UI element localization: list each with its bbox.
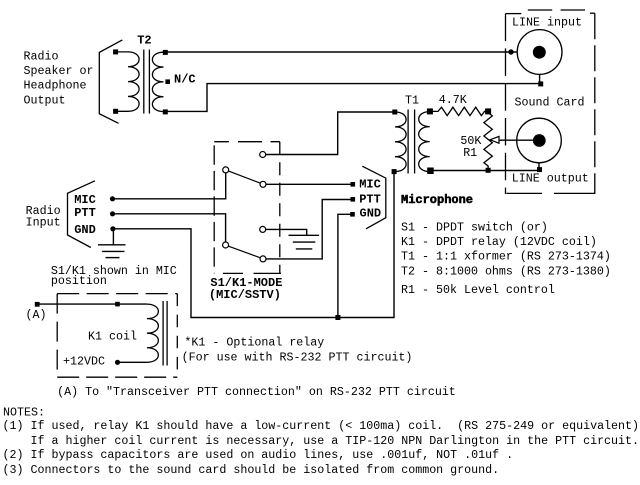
svg-text:Speaker or: Speaker or: [24, 64, 94, 78]
wire (A) to K1 coil: [37, 303, 147, 305]
wire D to ground: [266, 229, 307, 235]
svg-text:K1 coil: K1 coil: [88, 329, 137, 343]
potentiometer R1 50K element: [484, 113, 492, 171]
wire from switch to T1 primary top: [266, 112, 395, 155]
svg-text:If a higher coil current is ne: If a higher coil current is necessary, u…: [3, 434, 640, 448]
T2 primary terminal dots: [113, 49, 118, 54]
svg-text:R1: R1: [463, 146, 477, 160]
svg-text:LINE input: LINE input: [512, 16, 582, 30]
svg-text:K1 - DPDT relay (12VDC coil): K1 - DPDT relay (12VDC coil): [401, 235, 597, 249]
4.7K right terminal dot: [485, 108, 491, 114]
terminal (A) dot: [35, 302, 40, 307]
T2 center tap N/C dot: [165, 79, 170, 84]
wire radio GND to ground bus: [113, 172, 394, 318]
label: Radio Speaker or Headphone Output: [24, 50, 94, 108]
K1 coil winding: [147, 304, 158, 362]
wire C to mic MIC dot: [266, 183, 353, 185]
ground symbol (switch): [289, 235, 320, 249]
switch common E: [223, 242, 229, 248]
+12VDC dot: [115, 360, 120, 365]
svg-text:R1 - 50k Level control: R1 - 50k Level control: [401, 283, 555, 297]
radio GND dot: [110, 226, 115, 231]
svg-text:T2: T2: [137, 34, 151, 48]
svg-text:GND: GND: [74, 223, 96, 237]
svg-text:PTT: PTT: [359, 193, 381, 207]
svg-text:T1: T1: [405, 93, 419, 107]
connector bracket (radio speaker output): [99, 40, 122, 123]
T1 primary terminal dots: [392, 110, 397, 115]
junction dot pot bottom: [486, 168, 491, 173]
mic connector bracket: [362, 166, 386, 229]
svg-text:MIC: MIC: [359, 178, 381, 192]
ground symbol (radio input): [98, 231, 126, 258]
mic PTT dot: [351, 197, 356, 202]
svg-text:position: position: [51, 274, 107, 288]
svg-text:NOTES:: NOTES:: [3, 406, 45, 420]
svg-text:*K1 - Optional relay: *K1 - Optional relay: [184, 335, 324, 349]
svg-text:Sound Card: Sound Card: [515, 95, 585, 109]
wire T2 top to LINE input tip: [165, 51, 534, 53]
switch contact C (to mic MIC): [260, 181, 266, 187]
svg-text:(MIC/SSTV): (MIC/SSTV): [209, 288, 281, 302]
svg-text:N/C: N/C: [174, 72, 196, 86]
T2 secondary terminal dots: [163, 50, 168, 55]
svg-text:(2) If bypass capacitors are u: (2) If bypass capacitors are used on aud…: [3, 448, 514, 462]
wire wiper to LINE output tip: [499, 139, 534, 141]
LINE output RCA jack: [517, 118, 562, 163]
switch contact A (to T1): [260, 152, 266, 158]
transformer T1 secondary winding: [419, 112, 430, 172]
transformer T1 primary winding: [395, 112, 406, 172]
wire mic GND down to ground bus: [338, 214, 353, 317]
LINE output sleeve stub: [538, 163, 540, 171]
svg-text:LINE output: LINE output: [512, 171, 589, 185]
LINE input RCA jack: [517, 30, 562, 75]
svg-text:(A): (A): [26, 308, 47, 322]
svg-text:T1 - 1:1 xformer (RS 273-1374): T1 - 1:1 xformer (RS 273-1374): [401, 250, 611, 264]
transformer T2 primary winding: [118, 52, 139, 111]
switch contact F (to mic PTT): [260, 256, 266, 262]
svg-text:PTT: PTT: [74, 206, 96, 220]
svg-text:(1) If used, relay K1 should h: (1) If used, relay K1 should have a low-…: [3, 419, 640, 433]
switch lever B-C: [229, 171, 261, 183]
R1 wiper arrow: [490, 136, 499, 143]
svg-text:(A) To "Transceiver PTT connec: (A) To "Transceiver PTT connection" on R…: [57, 385, 456, 399]
LINE input sleeve stub: [539, 74, 541, 83]
resistor 4.7K: [430, 107, 488, 115]
switch common B: [223, 167, 229, 173]
svg-text:Input: Input: [26, 216, 61, 230]
transformer T1 core: [408, 110, 415, 174]
switch contact D (to ground): [260, 226, 266, 232]
T1 secondary terminal dots: [427, 108, 433, 114]
svg-text:+12VDC: +12VDC: [63, 355, 105, 369]
connector bracket (radio input): [68, 181, 96, 248]
wire +12VDC to coil: [118, 361, 147, 363]
junction dot on (A) wire: [115, 302, 120, 307]
svg-text:Output: Output: [24, 93, 66, 107]
junction dot on LINE input wire: [508, 49, 513, 54]
radio PTT dot: [110, 211, 115, 216]
K1 core: [163, 301, 167, 366]
wire F to mic PTT dot: [266, 200, 353, 259]
sound card dashed box: [506, 10, 595, 194]
junction dot ground bus: [335, 315, 340, 320]
svg-text:(For use with RS-232 PTT circu: (For use with RS-232 PTT circuit): [182, 351, 413, 365]
svg-text:(3) Connectors to the sound ca: (3) Connectors to the sound card should …: [3, 463, 500, 477]
svg-text:GND: GND: [360, 207, 382, 221]
svg-text:MIC: MIC: [74, 193, 96, 207]
svg-text:Microphone: Microphone: [401, 193, 473, 207]
switch dashed box S1/K1: [214, 142, 281, 274]
svg-text:Headphone: Headphone: [24, 78, 87, 92]
wire B down to radio MIC: [113, 173, 226, 199]
svg-text:4.7K: 4.7K: [439, 93, 467, 107]
bottom audio wire T1 to LINE output sleeve: [430, 170, 539, 172]
transformer T2 secondary winding: [152, 52, 164, 111]
svg-text:Radio: Radio: [24, 50, 59, 64]
transformer T2 core: [144, 50, 150, 114]
svg-text:S1 - DPDT switch (or): S1 - DPDT switch (or): [401, 220, 548, 234]
radio MIC dot: [110, 196, 115, 201]
parts list: [401, 220, 611, 297]
mic GND dot: [350, 212, 355, 217]
mic MIC dot: [351, 182, 356, 187]
wire E up to radio PTT: [113, 214, 226, 242]
K1 relay dashed box: [57, 294, 177, 378]
svg-text:T2 - 8:1000 ohms (RS 273-1380): T2 - 8:1000 ohms (RS 273-1380): [401, 265, 611, 279]
switch lever E-F: [229, 246, 261, 258]
wire T2 bottom to LINE input sleeve: [165, 84, 540, 112]
